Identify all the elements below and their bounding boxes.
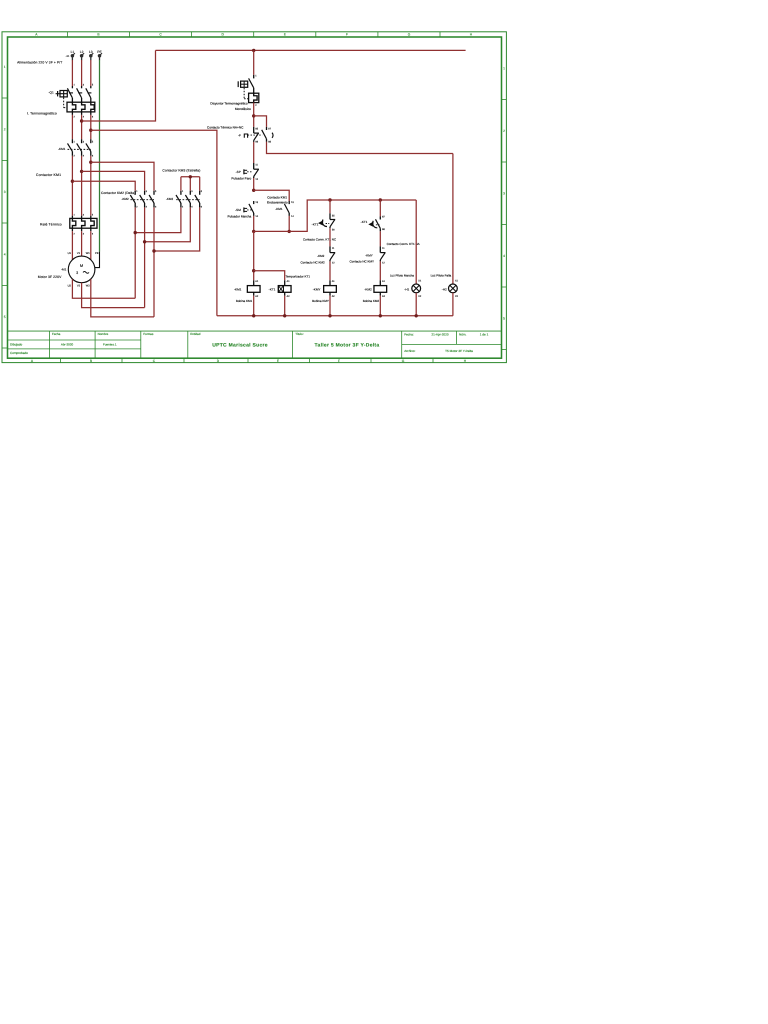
wire KM2 pole1 to U2 node	[134, 207, 136, 298]
wire L1 to Q1	[71, 60, 73, 86]
svg-text:Temporizador KT1: Temporizador KT1	[286, 274, 311, 278]
label -H2	[442, 288, 447, 292]
svg-text:4: 4	[83, 155, 85, 158]
node top line to Q2	[252, 49, 255, 52]
svg-text:2: 2	[4, 127, 6, 131]
svg-text:Contacto Térmico NA+NC: Contacto Térmico NA+NC	[207, 126, 244, 130]
svg-text:H: H	[470, 33, 473, 37]
motor terminal labels bottom	[68, 284, 91, 287]
wire KM3 pole2 link	[145, 207, 191, 241]
KM2 NC pin numbers	[332, 247, 335, 264]
wire SP to SM	[253, 178, 255, 190]
svg-text:-KT1: -KT1	[312, 223, 319, 227]
wire KM1 coil feed	[253, 231, 255, 280]
svg-text:68: 68	[382, 228, 385, 231]
svg-text:G: G	[402, 359, 405, 363]
svg-text:Nombre: Nombre	[98, 332, 109, 336]
thermal contact F 97-98	[262, 127, 267, 142]
wire L3 Q1 to KM1	[90, 115, 92, 139]
thermal contact F 95-96	[254, 127, 259, 142]
svg-text:3: 3	[83, 140, 85, 143]
wire L2 KM1 to relay	[81, 156, 83, 216]
F NO pin numbers	[268, 128, 271, 144]
svg-text:-KM2: -KM2	[364, 288, 372, 292]
wire W2 loop	[91, 279, 154, 317]
svg-text:-KM1: -KM1	[234, 288, 242, 292]
label -F	[238, 133, 241, 137]
svg-text:A: A	[35, 33, 38, 37]
trip hook symbol	[272, 133, 273, 138]
wire KM3 pole3 link	[154, 207, 200, 251]
wire KM3 pole1 link	[135, 207, 181, 232]
wire U2 loop	[72, 279, 135, 298]
interlock contact KMY NC	[380, 246, 385, 261]
label Bobina KM1	[236, 299, 253, 303]
svg-text:2: 2	[136, 205, 138, 208]
svg-text:Relé Térmico: Relé Térmico	[40, 223, 62, 227]
border frame	[2, 32, 506, 363]
wire U1 to motor	[71, 231, 73, 260]
terminal L1	[71, 53, 75, 60]
svg-text:Contacto NC KMY: Contacto NC KMY	[349, 260, 374, 264]
wire V2 loop	[82, 283, 145, 308]
node Q2 output	[252, 114, 255, 117]
svg-text:2: 2	[503, 129, 505, 133]
label -KMY coil	[313, 288, 321, 292]
label -KM2 coil	[364, 288, 372, 292]
wire L1 Q1 to KM1	[71, 115, 73, 139]
svg-text:11: 11	[332, 247, 335, 250]
pushbutton SM actuator	[244, 207, 253, 212]
supply note	[17, 61, 62, 65]
label Motor 3F 220V	[38, 275, 62, 279]
svg-text:Núm.: Núm.	[459, 333, 467, 337]
label -KT1 NA	[361, 220, 368, 224]
bottom ruler ticks	[61, 358, 434, 362]
contactor KM3 star contacts	[176, 191, 200, 208]
svg-text:4: 4	[4, 252, 6, 256]
wire PE to motor frame	[95, 252, 100, 268]
svg-text:3: 3	[146, 190, 148, 193]
latching contact KM1 13-14	[284, 201, 289, 216]
svg-text:X2: X2	[418, 295, 422, 298]
svg-text:4: 4	[191, 205, 193, 208]
svg-text:V1: V1	[77, 252, 81, 255]
svg-text:E: E	[284, 33, 287, 37]
svg-text:Enclavamiento: Enclavamiento	[267, 201, 288, 205]
svg-text:2: 2	[74, 232, 76, 235]
svg-text:Pulsador Paro: Pulsador Paro	[231, 176, 251, 180]
svg-text:Motor 3F 220V: Motor 3F 220V	[38, 275, 62, 279]
wire rail to KT1 NA	[379, 200, 381, 216]
node KT1 coil branch	[252, 269, 255, 272]
wire L2 to Q1	[81, 60, 83, 86]
svg-text:1: 1	[182, 190, 184, 193]
node coil feed	[252, 230, 255, 233]
svg-text:V2: V2	[77, 284, 81, 287]
wire KM1 aux bottom	[288, 216, 290, 232]
svg-text:Archivo:: Archivo:	[404, 349, 415, 353]
wire KM2 coil to rail	[379, 296, 381, 316]
svg-text:6: 6	[92, 116, 94, 119]
top ruler letters	[35, 33, 473, 37]
label -H1	[404, 288, 409, 292]
wire KT1 NC to KM2 NC	[329, 228, 331, 246]
svg-text:W2: W2	[86, 284, 90, 287]
KM1 aux pin numbers	[291, 201, 294, 218]
svg-text:1: 1	[74, 83, 76, 86]
label I. Termomagnetico	[27, 111, 57, 115]
svg-text:2: 2	[182, 205, 184, 208]
svg-text:-F: -F	[238, 133, 241, 137]
node W2 junction	[152, 249, 155, 252]
svg-text:1 de 1: 1 de 1	[480, 333, 489, 337]
label Contactor KM3 (Estrella)	[162, 169, 200, 173]
wire L2 Q1 to KM1	[81, 115, 83, 139]
terminal L3	[89, 53, 93, 60]
breaker Q2 pin numbers	[255, 74, 257, 107]
wire rail to lamp H1	[415, 200, 417, 284]
wire coil feed to timed rail	[254, 200, 417, 231]
wire W1 to motor	[90, 231, 92, 260]
label -M1	[61, 267, 67, 271]
svg-text:Taller 5 Motor 3F Y-Delta: Taller 5 Motor 3F Y-Delta	[315, 343, 380, 349]
wire KMY NC to KM2 coil	[379, 261, 381, 280]
wire H2 to rail	[452, 293, 454, 316]
svg-text:X1: X1	[418, 280, 422, 283]
svg-text:5: 5	[201, 190, 203, 193]
svg-text:A1: A1	[287, 280, 291, 283]
svg-text:12: 12	[332, 261, 335, 264]
svg-text:D: D	[222, 33, 225, 37]
label -KM1 aux	[275, 207, 283, 211]
svg-text:-KM2: -KM2	[317, 254, 324, 258]
svg-text:4: 4	[83, 232, 85, 235]
wire tap to KM2 pole3	[91, 162, 154, 191]
wire KMY coil to rail	[329, 296, 331, 316]
label Pulsador Marcha	[228, 215, 252, 219]
svg-text:6: 6	[155, 205, 157, 208]
svg-text:A2: A2	[255, 295, 259, 298]
svg-text:-X1: -X1	[66, 55, 70, 58]
coil KM1	[247, 280, 260, 295]
svg-text:-KMY: -KMY	[365, 253, 373, 257]
wire KM2 pole3 to W2 node	[153, 207, 155, 317]
svg-text:3: 3	[4, 190, 6, 194]
svg-text:Abr-2020: Abr-2020	[61, 342, 74, 346]
motor terminal labels top	[68, 252, 99, 255]
timed contact KT1 67-68 NO	[376, 216, 381, 231]
svg-text:W1: W1	[86, 252, 90, 255]
svg-text:3: 3	[191, 190, 193, 193]
pilot lamp H1	[412, 284, 421, 293]
svg-text:5: 5	[92, 213, 94, 216]
svg-text:12: 12	[255, 178, 258, 181]
svg-text:Luz Piloto Falla: Luz Piloto Falla	[431, 273, 452, 277]
svg-text:1: 1	[136, 190, 138, 193]
svg-text:-Q1: -Q1	[49, 90, 54, 94]
label Contacto KM1 Enclavamiento	[267, 195, 288, 204]
thermal relay F1	[70, 216, 97, 232]
svg-text:C: C	[159, 33, 162, 37]
top ruler ticks	[67, 32, 440, 37]
svg-text:-KM3: -KM3	[166, 197, 173, 201]
terminal strip X1 label	[66, 55, 70, 58]
svg-text:5: 5	[92, 83, 94, 86]
node L3 tap	[89, 129, 92, 132]
wire control supply top line	[156, 49, 466, 51]
right ruler numbers	[503, 66, 505, 320]
contactor KM2 delta contacts	[130, 191, 154, 208]
label Contacto NC KM2	[301, 261, 326, 265]
svg-text:Comprobado: Comprobado	[10, 351, 28, 355]
wire F NC to SP	[253, 142, 255, 163]
pushbutton SM start	[249, 201, 254, 216]
svg-text:1: 1	[503, 66, 505, 70]
svg-text:12: 12	[382, 261, 385, 264]
wire SM output to coils rail	[253, 216, 255, 232]
label Bobina KM2	[363, 299, 380, 303]
wire L3 KM1 to relay	[90, 156, 92, 216]
svg-text:5: 5	[503, 316, 505, 320]
contactor KM2 pin numbers	[136, 190, 157, 209]
label Contacto NC KMY	[349, 260, 374, 264]
svg-text:-KT1: -KT1	[269, 288, 276, 292]
svg-text:96: 96	[255, 141, 258, 144]
svg-text:56: 56	[332, 228, 335, 231]
label Temporizador KT1	[286, 274, 311, 278]
svg-text:21-Apr-2020: 21-Apr-2020	[431, 333, 448, 337]
svg-text:Contactor KM2 (Delta): Contactor KM2 (Delta)	[101, 191, 135, 195]
KT1 NA pin numbers	[382, 215, 385, 231]
svg-text:67: 67	[382, 215, 385, 218]
title block grid	[8, 331, 502, 358]
wire L2 tap to control supply riser	[82, 50, 156, 121]
svg-text:F: F	[338, 359, 340, 363]
entity name	[212, 343, 268, 349]
wire L3 tap to control return rail	[91, 130, 217, 316]
svg-text:4: 4	[83, 116, 85, 119]
svg-text:Contacto Conm. KT1 NA: Contacto Conm. KT1 NA	[387, 242, 420, 246]
svg-text:Contacto NC KM2: Contacto NC KM2	[301, 261, 326, 265]
coil KM2	[374, 280, 387, 295]
svg-text:-SM: -SM	[235, 208, 241, 212]
svg-text:A1: A1	[382, 280, 386, 283]
node star point	[189, 175, 192, 178]
label Luz Piloto Falla	[431, 273, 452, 277]
wire KT1 coil to rail	[284, 296, 286, 316]
svg-text:3: 3	[83, 213, 85, 216]
terminal PE	[98, 53, 102, 60]
thermal relay F1 pin numbers	[74, 213, 94, 235]
wire V1 to motor	[81, 231, 83, 256]
wire branch to F NO	[254, 116, 267, 127]
svg-text:M: M	[80, 263, 83, 268]
svg-text:-H2: -H2	[442, 288, 447, 292]
svg-text:4: 4	[503, 254, 505, 258]
svg-text:Fecha:: Fecha:	[404, 333, 414, 337]
svg-text:13: 13	[291, 201, 294, 204]
label -Q1	[49, 90, 54, 94]
svg-text:11: 11	[382, 247, 385, 250]
svg-text:Dibujado: Dibujado	[10, 342, 22, 346]
label Pulsador Paro	[231, 176, 251, 180]
label Bobina KMY	[312, 299, 329, 303]
node U2 junction	[134, 231, 137, 234]
KM2 coil pin numbers	[382, 280, 386, 298]
label Contacto Conm KT1 NA	[387, 242, 420, 246]
F NC pin numbers	[255, 128, 258, 144]
wire tap to KM2 pole2	[82, 171, 145, 190]
svg-text:3: 3	[83, 83, 85, 86]
timer symbol KT1 NC	[318, 220, 329, 227]
thermal actuator F	[244, 134, 262, 138]
svg-text:-KT1: -KT1	[361, 220, 368, 224]
title block values	[61, 333, 489, 353]
svg-text:1: 1	[74, 213, 76, 216]
svg-text:Título:: Título:	[295, 332, 304, 336]
timed contact KT1 55-56 NC	[330, 213, 335, 228]
wire F NO to lamp H2	[267, 142, 453, 154]
svg-text:Monofásico: Monofásico	[235, 107, 251, 111]
svg-text:X1: X1	[455, 280, 459, 283]
left ruler ticks	[2, 98, 8, 348]
svg-text:I. Termomagnético: I. Termomagnético	[27, 111, 57, 115]
svg-text:55: 55	[332, 215, 335, 218]
svg-text:F: F	[346, 33, 348, 37]
label -KT1 coil	[269, 288, 276, 292]
svg-text:2: 2	[74, 116, 76, 119]
svg-text:-KMY: -KMY	[313, 288, 321, 292]
label Contacto Termico NA+NC	[207, 126, 244, 130]
wire KM1 coil to rail	[253, 296, 255, 316]
title block small labels	[52, 332, 467, 336]
label -KM2 NC	[317, 254, 324, 258]
svg-text:A2: A2	[287, 295, 291, 298]
wire F NO line to lamp H2	[452, 154, 454, 285]
svg-text:5: 5	[155, 190, 157, 193]
svg-text:1: 1	[4, 65, 6, 69]
wire L3 to Q1	[90, 60, 92, 86]
KT1 coil pin numbers	[287, 280, 291, 298]
node L1 to delta tap	[71, 180, 74, 183]
svg-text:B: B	[97, 33, 100, 37]
bottom ruler letters	[31, 359, 467, 363]
svg-text:97: 97	[268, 128, 271, 131]
svg-text:6: 6	[201, 205, 203, 208]
KMY coil pin numbers	[332, 280, 336, 298]
svg-text:1: 1	[255, 74, 257, 77]
H1 pin numbers	[418, 280, 422, 298]
wire KM3 star bridge	[181, 177, 200, 191]
svg-text:T5 Motor 3F Y-Delta: T5 Motor 3F Y-Delta	[445, 349, 473, 353]
node L2 to delta tap	[80, 170, 83, 173]
svg-text:2: 2	[255, 104, 257, 107]
wire Q2 to F contacts	[253, 103, 255, 127]
KT1 NC pin numbers	[332, 215, 335, 232]
pushbutton SP actuator	[244, 169, 253, 174]
svg-text:-KM1: -KM1	[275, 207, 283, 211]
label Rele Termico	[40, 223, 62, 227]
drawing title	[315, 343, 380, 349]
svg-text:Formas: Formas	[143, 332, 154, 336]
supply labels L1 L2 L3 PE	[71, 50, 103, 54]
svg-text:5: 5	[4, 315, 6, 319]
svg-text:-SP: -SP	[236, 170, 241, 174]
node KM1 aux join	[288, 230, 291, 233]
label Contacto Conm KT1 NC	[303, 238, 337, 242]
svg-text:98: 98	[268, 141, 271, 144]
pushbutton SP stop	[254, 163, 259, 178]
svg-text:6: 6	[92, 155, 94, 158]
svg-text:X2: X2	[455, 295, 459, 298]
SM pin numbers	[255, 201, 258, 218]
wire tap to KM2 pole1	[72, 181, 135, 191]
coil KT1 timer	[278, 280, 291, 295]
svg-text:Contactor KM3 (Estrella): Contactor KM3 (Estrella)	[162, 169, 200, 173]
wire control bottom rail	[217, 315, 453, 317]
svg-text:Contacto KM1: Contacto KM1	[267, 195, 287, 199]
svg-text:Entidad: Entidad	[190, 332, 201, 336]
label -KM1 coil	[234, 288, 242, 292]
svg-text:Pulsador Marcha: Pulsador Marcha	[228, 215, 252, 219]
node rail KT1	[283, 314, 286, 317]
svg-text:5: 5	[92, 140, 94, 143]
label -SP	[236, 170, 241, 174]
node rail H1	[415, 314, 418, 317]
wire KT1 NA to KMY NC	[379, 231, 381, 246]
contactor KM1 pin numbers	[74, 140, 94, 157]
svg-text:3: 3	[76, 271, 78, 275]
wire top line to Q2	[253, 50, 255, 75]
label -KMY NC	[365, 253, 373, 257]
KMY NC pin numbers	[382, 247, 385, 264]
right ruler ticks	[502, 100, 507, 350]
svg-text:U1: U1	[68, 252, 72, 255]
svg-text:UPTC Mariscal Sucre: UPTC Mariscal Sucre	[212, 343, 268, 349]
contactor KM3 pin numbers	[182, 190, 203, 209]
svg-text:-M1: -M1	[61, 267, 67, 271]
coil KMY	[324, 280, 337, 295]
SP pin numbers	[255, 164, 258, 181]
label Contactor KM2 (Delta)	[101, 191, 135, 195]
svg-text:3: 3	[503, 191, 505, 195]
svg-text:Bobina KMY: Bobina KMY	[312, 299, 329, 303]
interlock contact KM2 NC	[330, 246, 335, 261]
svg-text:-KM2: -KM2	[122, 197, 129, 201]
svg-text:4: 4	[146, 205, 148, 208]
label -KT1 NC	[312, 223, 319, 227]
label -KM2 delta	[122, 197, 129, 201]
left ruler numbers	[4, 65, 6, 319]
svg-text:11: 11	[255, 164, 258, 167]
svg-text:14: 14	[291, 215, 294, 218]
wire branch to KM1 aux	[254, 190, 290, 201]
svg-text:14: 14	[255, 215, 258, 218]
svg-text:Bobina KM1: Bobina KM1	[236, 299, 253, 303]
node rail KM1	[252, 314, 255, 317]
node rail KM2 branch	[379, 198, 382, 201]
svg-text:U2: U2	[68, 284, 72, 287]
svg-text:A2: A2	[382, 295, 386, 298]
svg-text:95: 95	[255, 128, 258, 131]
wire L1 KM1 to relay	[71, 156, 73, 216]
svg-text:G: G	[408, 33, 411, 37]
svg-text:13: 13	[255, 201, 258, 204]
wire PE green	[99, 60, 101, 252]
node SP output	[252, 189, 255, 192]
label -KM1	[58, 147, 66, 151]
